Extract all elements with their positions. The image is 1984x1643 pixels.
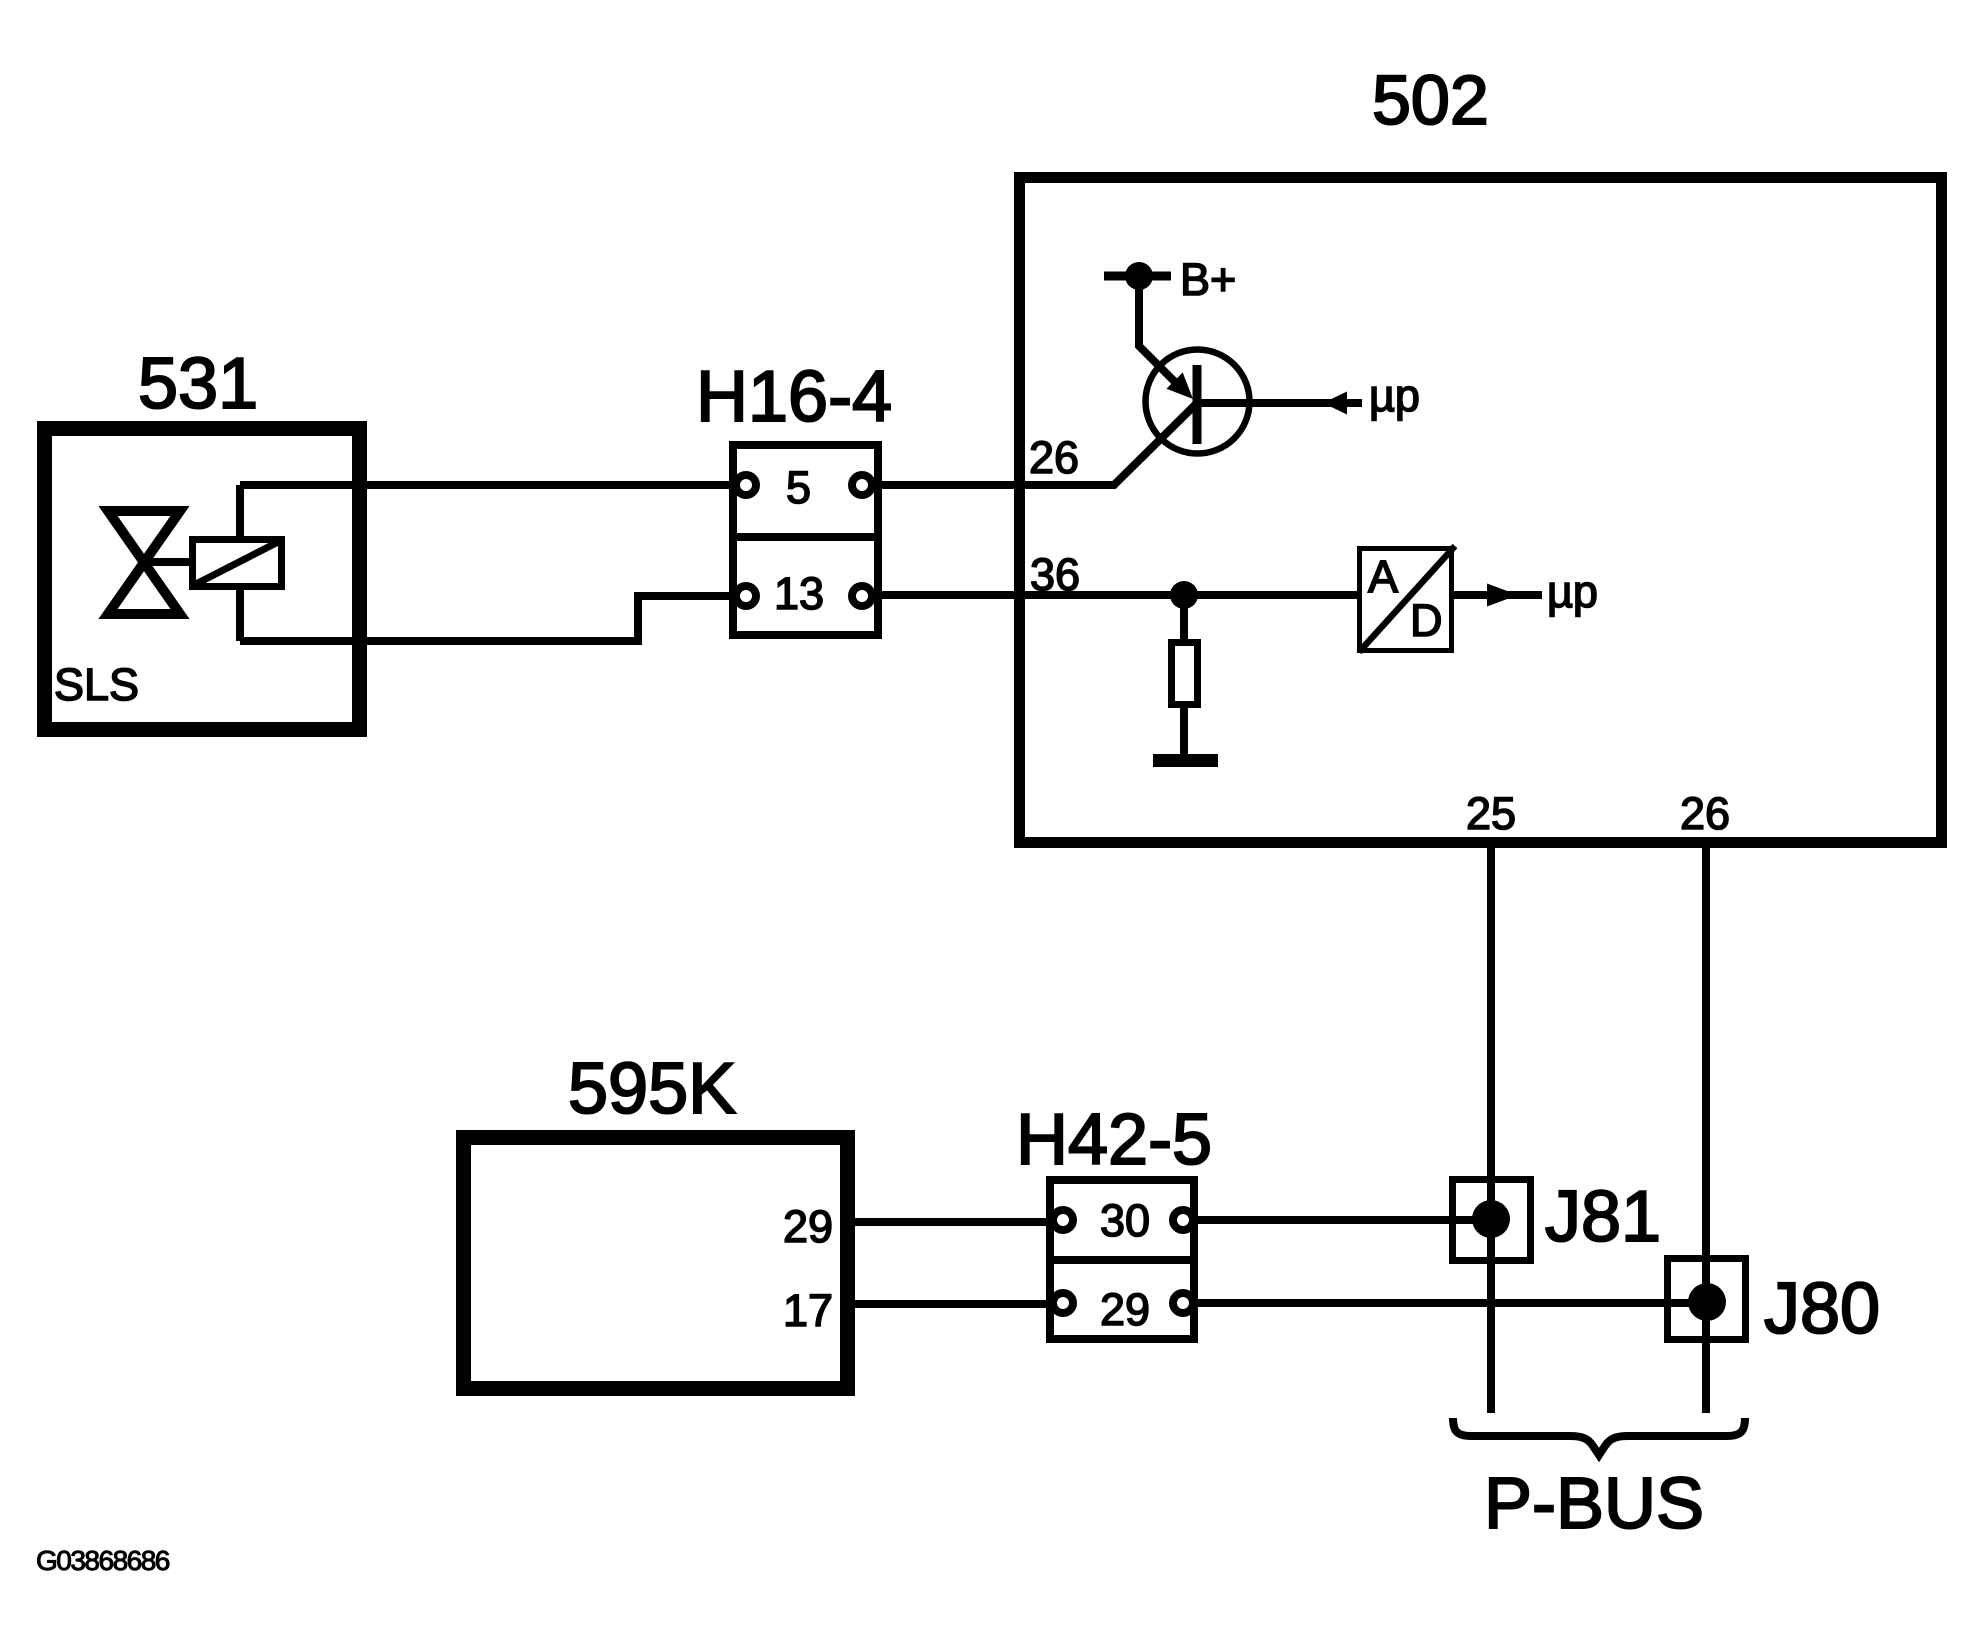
ground [1153, 754, 1218, 767]
svg-text:17: 17 [783, 1285, 833, 1336]
svg-text:25: 25 [1466, 788, 1516, 839]
svg-text:5: 5 [786, 462, 811, 513]
wire: 502 pin 25 to P-BUS junction J81 [1487, 840, 1495, 1413]
wire: transistor base to microprocessor [1197, 392, 1362, 415]
A/D converter [1359, 546, 1455, 652]
svg-text:26: 26 [1029, 432, 1079, 483]
wire: 531 coil top to H16-4 pin 5 [240, 481, 745, 489]
transistor Q (output driver) [1146, 350, 1250, 454]
connector H42-5 [1046, 1180, 1198, 1339]
svg-text:502: 502 [1372, 61, 1489, 139]
resistor R (pull-down) [1172, 643, 1198, 705]
wire: junction to resistor and ground [1180, 595, 1188, 754]
svg-text:26: 26 [1680, 788, 1730, 839]
valve symbol [108, 511, 192, 614]
wire: H42-5 pin 29 to junction J80 [1183, 1299, 1707, 1307]
wire: 595K pin 29 to H42-5 pin 30 [850, 1218, 1063, 1226]
svg-text:H42-5: H42-5 [1016, 1100, 1212, 1180]
wire: H16-4 pin 13 to 502 pin 36 and A/D converter [862, 591, 1357, 599]
svg-text:µp: µp [1369, 370, 1420, 421]
box 595K [464, 1138, 848, 1389]
junction J80 [1668, 1259, 1746, 1340]
svg-text:A: A [1368, 551, 1398, 602]
junction node (pin 36 wire) [1170, 581, 1198, 609]
box 531 (SLS solenoid valve unit) [45, 429, 360, 730]
junction J81 [1453, 1180, 1531, 1261]
solenoid coil [193, 540, 282, 587]
wire: A/D to microprocessor [1454, 584, 1542, 607]
svg-text:H16-4: H16-4 [696, 357, 892, 437]
wire: H16-4 pin 5 to 502 pin 26 and transistor base [862, 403, 1197, 485]
svg-text:P-BUS: P-BUS [1484, 1464, 1704, 1544]
svg-text:J81: J81 [1545, 1177, 1661, 1257]
B+ supply node [1104, 262, 1193, 399]
P-BUS brace [1453, 1418, 1745, 1455]
svg-text:13: 13 [774, 568, 824, 619]
wire: H42-5 pin 30 to junction J81 [1183, 1216, 1491, 1224]
svg-text:µp: µp [1547, 566, 1598, 617]
wire: 531 coil bottom with step up to H16-4 pin 13 [240, 596, 745, 641]
svg-text:29: 29 [1100, 1284, 1150, 1335]
svg-text:D: D [1410, 595, 1443, 646]
svg-text:B+: B+ [1180, 254, 1236, 305]
wire: 502 pin 26 to P-BUS junction J80 [1702, 840, 1710, 1413]
svg-text:595K: 595K [568, 1049, 736, 1129]
svg-text:29: 29 [783, 1201, 833, 1252]
box 502 (control module) [1020, 178, 1942, 843]
svg-text:SLS: SLS [54, 659, 139, 710]
svg-text:531: 531 [138, 344, 258, 424]
wire: 531 coil loop vertical [236, 485, 244, 641]
wire: 595K pin 17 to H42-5 pin 29 [850, 1300, 1063, 1308]
connector H16-4 [729, 445, 882, 635]
svg-text:30: 30 [1100, 1195, 1150, 1246]
svg-text:J80: J80 [1764, 1269, 1880, 1349]
svg-text:36: 36 [1030, 549, 1080, 600]
svg-text:G03868686: G03868686 [36, 1545, 170, 1576]
